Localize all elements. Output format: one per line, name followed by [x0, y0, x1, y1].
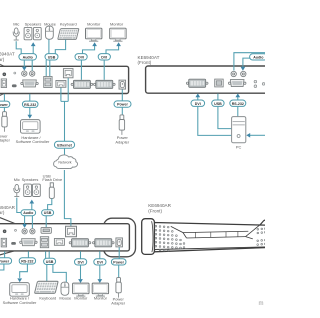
svg-text:DVI: DVI	[78, 260, 84, 264]
pill DVI bottom 2	[94, 259, 106, 265]
chassis corner hint bottom-left	[0, 93, 5, 95]
svg-text:Audio: Audio	[23, 211, 34, 215]
svg-text:Adapter: Adapter	[0, 138, 11, 143]
mouse icon bottom	[61, 282, 69, 295]
svg-text:DVI: DVI	[195, 102, 201, 106]
svg-text:(Front): (Front)	[138, 60, 152, 65]
svg-text:Ethernet: Ethernet	[57, 143, 72, 147]
wire DVI pill to PC	[198, 107, 232, 136]
wire audio into PC right with arrow	[250, 134, 266, 136]
wire USB pill to usb ports	[46, 60, 50, 76]
AR fold diagonal left	[171, 226, 187, 238]
wire DVI pill1 to DVI port	[80, 60, 82, 80]
grounding knob	[3, 73, 7, 77]
wire USB up into front box	[217, 94, 219, 100]
power adapter right	[119, 115, 124, 135]
svg-text:USB: USB	[44, 211, 52, 215]
pill RS-232 right	[230, 100, 246, 106]
front LEDs	[254, 80, 257, 83]
right end cap of AR chassis	[104, 218, 136, 257]
svg-text:Speakers: Speakers	[22, 177, 39, 182]
pill DVI 2	[98, 54, 110, 60]
LAN port lower (rear AT)	[56, 81, 66, 88]
wire monitor1 elbow with arrow	[83, 46, 95, 54]
wire USB pill to mouse	[53, 265, 66, 283]
AR left vent holes	[155, 225, 185, 251]
front audio jack 2	[241, 71, 246, 76]
pill USB top-left	[45, 54, 58, 60]
LAN port AR	[66, 226, 77, 236]
power inlet AR	[1, 238, 6, 247]
audio jack mic AR	[22, 229, 27, 234]
chassis corner hint top-left	[0, 64, 5, 67]
pill Power bottom right	[111, 259, 126, 265]
wire Audio pill to speakers arrow mid	[31, 203, 33, 209]
svg-text:Mouse: Mouse	[44, 21, 57, 26]
pill Audio mid	[21, 210, 36, 216]
front USB port	[215, 79, 224, 87]
DVI in 2 AR	[93, 239, 115, 247]
pill Audio top-left	[19, 54, 37, 60]
keyboard icon bottom	[34, 281, 58, 293]
wire Power pill to adapter left	[3, 107, 5, 111]
AR right wedge diagonals	[246, 225, 260, 239]
AR recessed band lower line	[187, 237, 246, 238]
svg-text:DVI: DVI	[97, 260, 103, 264]
AR recessed band upper line	[183, 231, 248, 232]
DVI out 1 (rear AT)	[71, 80, 93, 88]
AR right bracket edge	[260, 220, 266, 225]
speaker right mid	[33, 184, 41, 196]
grounding knob AR	[3, 230, 7, 234]
svg-text:KE6940AR: KE6940AR	[148, 203, 171, 208]
svg-text:KE6940AT: KE6940AT	[0, 52, 15, 57]
wire DVI pill to monitor arrow bottom 1	[80, 265, 82, 279]
wire Power pill to adapter bottom	[118, 265, 120, 278]
pill RS-232	[22, 101, 38, 107]
svg-text:PC: PC	[236, 145, 242, 150]
audio jack speaker AR	[30, 229, 35, 234]
wire RS-232 pill to controller arrow	[29, 107, 31, 115]
svg-text:Adapter: Adapter	[115, 139, 129, 144]
svg-text:Mic: Mic	[14, 177, 20, 182]
power inlet (rear AT)	[1, 79, 6, 88]
AR body	[154, 223, 266, 252]
usb ports stack AR	[40, 237, 48, 248]
front RS-232 DB9	[228, 80, 246, 87]
AR left bracket	[142, 219, 155, 255]
svg-text:Monitor: Monitor	[94, 296, 108, 301]
wire USB pill to PC	[218, 107, 232, 129]
svg-text:Adapter: Adapter	[111, 301, 125, 306]
svg-text:Power: Power	[0, 103, 8, 107]
AR bottom crease	[155, 247, 266, 250]
svg-text:Keyboard: Keyboard	[60, 21, 77, 26]
svg-text:Power: Power	[0, 259, 10, 263]
svg-text:Monitor: Monitor	[110, 21, 124, 26]
DVI in 1 AR	[69, 239, 91, 247]
AR right vent holes	[257, 228, 266, 246]
option slot	[12, 84, 17, 87]
wire Power bottom-left exits image	[0, 264, 4, 270]
svg-text:Speakers: Speakers	[25, 21, 42, 26]
monitor 2	[110, 28, 126, 41]
wire cloud to receiver LAN	[64, 170, 71, 227]
pill DVI bottom 1	[75, 259, 87, 265]
svg-text:Monitor: Monitor	[87, 21, 101, 26]
audio jack mic (rear AT)	[22, 71, 27, 76]
svg-text:Audio: Audio	[23, 55, 34, 59]
pill DVI right	[191, 100, 205, 106]
wire Audio pill to speakers with arrow	[32, 46, 34, 54]
svg-text:USB: USB	[214, 102, 222, 106]
keyboard icon	[58, 29, 79, 40]
svg-text:DVI: DVI	[101, 55, 107, 59]
pill Power right	[114, 101, 131, 107]
LAN port lower AR	[54, 239, 64, 246]
usb front port AR	[41, 227, 51, 233]
hardware software controller bottom	[10, 283, 30, 297]
wire Power pill right to adapter	[121, 107, 123, 115]
wire USB pill to keyboard	[46, 265, 48, 282]
wire mouse to USB pill	[48, 39, 50, 53]
LAN port upper (rear AT)	[63, 69, 73, 78]
wire usb stack to USB pill bottom	[46, 251, 50, 258]
svg-text:Mouse: Mouse	[59, 296, 72, 301]
wire Audio pill to mic jack arrow	[23, 60, 25, 67]
reset hole	[14, 72, 16, 74]
AR left bracket inner edge	[152, 221, 153, 252]
wire keyboard to USB pill	[55, 40, 65, 54]
svg-text:Power: Power	[117, 103, 128, 107]
svg-text:Keyboard: Keyboard	[39, 296, 56, 301]
svg-text:Software Controller: Software Controller	[3, 300, 37, 305]
hardware software controller top	[21, 120, 41, 134]
PC tower	[232, 117, 246, 143]
network cloud	[54, 155, 78, 169]
svg-text:Monitor: Monitor	[74, 296, 88, 301]
wire Audio pill to jack2 (AR)	[31, 216, 33, 229]
KE6940AT front panel box	[146, 66, 272, 93]
RS-232 DB9 (rear AT)	[21, 80, 39, 87]
usb ports stack (rear AT)	[44, 77, 52, 88]
svg-text:(Front): (Front)	[148, 209, 162, 214]
svg-text:(Rear): (Rear)	[0, 57, 5, 62]
wire DVI1 to pill bottom	[80, 251, 82, 259]
wire flash drive to USB pill mid	[48, 199, 52, 210]
audio jack speaker (rear AT)	[30, 71, 35, 76]
KE6940AT rear panel box	[0, 66, 129, 93]
RS-232 DB9 AR	[20, 239, 38, 246]
reset hole AR	[15, 229, 17, 231]
wire DB9 to RS-232 pill bottom	[27, 251, 29, 258]
wire LAN ports to Ethernet pill	[61, 78, 68, 141]
wire power inlet to Power pill	[3, 94, 5, 101]
pill USB right	[212, 100, 224, 106]
wire USB pill to front port (AR)	[45, 216, 47, 228]
wire DVI pill to monitor arrow bottom 2	[99, 265, 101, 279]
svg-text:m: m	[259, 301, 264, 307]
power adapter left	[2, 112, 7, 132]
option slot AR	[11, 242, 16, 245]
pill Audio right (cut)	[250, 54, 268, 60]
wire DVI pill2 to DVI port	[103, 60, 105, 80]
svg-text:Audio: Audio	[253, 55, 264, 59]
wire front jack1 up and across to right edge	[234, 53, 266, 71]
wire Audio pill to speaker jack	[31, 60, 33, 71]
pill Power bottom-left (cut)	[0, 258, 12, 264]
chassis corner hint bottom-left AR	[0, 251, 15, 255]
pill Power left (cut)	[0, 101, 10, 107]
mouse icon	[46, 26, 54, 39]
pill DVI 1	[75, 54, 87, 60]
KE6940AR rear panel box	[0, 224, 129, 251]
svg-text:RS-232: RS-232	[24, 103, 36, 107]
speaker left	[24, 27, 32, 39]
pill USB mid	[42, 210, 54, 216]
front audio jack 1	[231, 71, 236, 76]
svg-text:USB: USB	[46, 260, 54, 264]
wire switch to Power pill bottom right	[118, 247, 120, 259]
svg-text:Power: Power	[113, 260, 124, 264]
flash drive icon	[49, 183, 54, 199]
wire DB9 to RS-232 pill	[29, 94, 31, 101]
power switch AR	[116, 238, 123, 247]
wire RS-232 arrow up into front box	[237, 97, 239, 100]
pill USB bottom	[44, 258, 56, 264]
svg-text:Mic: Mic	[13, 21, 19, 26]
chassis corner hint top-left AR	[0, 217, 15, 223]
pill Ethernet	[54, 141, 74, 148]
svg-text:Network: Network	[58, 161, 71, 165]
wire power switch to Power pill right	[121, 89, 123, 101]
svg-text:USB: USB	[48, 55, 56, 59]
svg-text:RS-232: RS-232	[21, 259, 33, 263]
pill RS-232 bottom	[19, 258, 35, 264]
wire monitor2 elbow with arrow	[106, 46, 119, 54]
monitor bottom 1	[73, 283, 89, 296]
monitor 1	[86, 28, 102, 41]
wire mic to Audio pill mid	[17, 198, 21, 213]
microphone icon mid	[14, 184, 20, 196]
front DVI port	[186, 79, 208, 87]
monitor bottom 2	[92, 283, 108, 296]
DVI out 2 (rear AT)	[94, 80, 116, 88]
wire Audio pill right to jack2 arrow	[243, 58, 250, 67]
microphone icon	[13, 28, 19, 40]
wire mic to Audio pill	[16, 41, 21, 53]
wire Ethernet pill to cloud	[64, 148, 66, 155]
AR band ticks	[196, 232, 238, 238]
wire RS-232 pill to PC top	[237, 107, 239, 117]
wire RS-232 pill to controller arrow bottom	[20, 264, 28, 278]
svg-text:(Rear): (Rear)	[0, 210, 5, 215]
svg-text:RS-232: RS-232	[232, 102, 244, 106]
wire inlet to Power pill bottom	[4, 251, 6, 258]
power adapter bottom	[116, 278, 121, 298]
svg-text:Flash Drive: Flash Drive	[42, 177, 63, 182]
wire Audio pill to jack1 arrow (AR)	[24, 216, 26, 225]
speaker right	[33, 27, 41, 39]
wire DVI arrow up into front box	[197, 97, 199, 100]
wire DVI2 to pill bottom	[99, 251, 101, 259]
power switch (rear AT)	[119, 80, 126, 89]
svg-text:DVI: DVI	[78, 55, 84, 59]
speaker left mid	[24, 184, 32, 196]
svg-text:Software Controller: Software Controller	[16, 139, 50, 144]
